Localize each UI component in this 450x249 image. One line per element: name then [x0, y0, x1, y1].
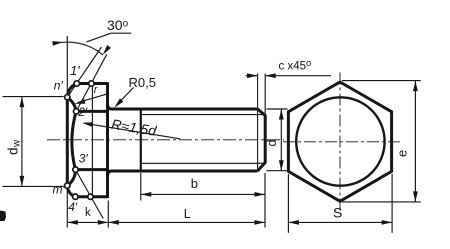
svg-text:m′: m′ — [53, 183, 66, 197]
svg-text:2′: 2′ — [77, 105, 88, 119]
svg-text:L: L — [184, 207, 191, 221]
svg-text:S: S — [333, 204, 342, 220]
svg-text:3′: 3′ — [79, 151, 89, 165]
svg-text:n′: n′ — [54, 79, 64, 93]
svg-text:4′: 4′ — [68, 200, 78, 214]
svg-text:R0,5: R0,5 — [129, 75, 156, 90]
svg-text:k: k — [85, 207, 91, 219]
svg-text:b: b — [191, 176, 198, 191]
svg-text:e: e — [395, 150, 410, 157]
svg-text:1′: 1′ — [70, 63, 80, 78]
svg-text:d: d — [265, 140, 279, 147]
